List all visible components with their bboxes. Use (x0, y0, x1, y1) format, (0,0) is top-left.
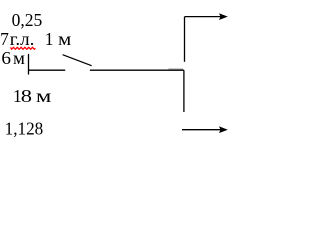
svg-text:1: 1 (45, 29, 54, 49)
wire upper vertical (184, 17, 186, 62)
svg-text:м: м (36, 86, 51, 106)
bottom output arrow wire (182, 129, 221, 131)
svg-text:м: м (13, 48, 25, 67)
svg-text:7: 7 (0, 29, 9, 49)
wire left segment (29, 69, 66, 71)
svg-text:6: 6 (1, 49, 11, 68)
node tick at switch left terminal (28, 54, 30, 75)
top output arrowhead (219, 13, 228, 20)
svg-text:0,25: 0,25 (12, 10, 43, 30)
top output arrow wire (185, 16, 222, 18)
svg-text:1,128: 1,128 (5, 119, 44, 138)
gray overlap wire segment (168, 68, 183, 70)
svg-text:м: м (58, 31, 71, 50)
switch blade (open) (63, 55, 92, 66)
spellcheck squiggle under г.л. (11, 47, 36, 49)
svg-text:г.л.: г.л. (10, 30, 35, 49)
wire right segment (90, 69, 184, 71)
bottom output arrowhead (219, 126, 228, 133)
svg-text:8: 8 (21, 87, 32, 106)
wire lower vertical (183, 70, 185, 112)
